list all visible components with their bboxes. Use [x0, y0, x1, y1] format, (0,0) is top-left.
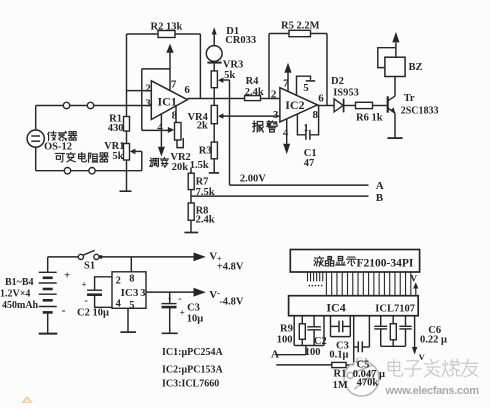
svg-text:2SC1833: 2SC1833: [401, 106, 439, 117]
svg-text:5: 5: [303, 82, 309, 94]
svg-text:D2: D2: [331, 76, 344, 87]
svg-text:+: +: [82, 279, 87, 289]
svg-text:0.22 μ: 0.22 μ: [420, 335, 447, 346]
svg-text:IC2: IC2: [285, 98, 304, 112]
svg-text:7.5k: 7.5k: [196, 187, 215, 198]
svg-text:1M: 1M: [333, 380, 348, 391]
svg-text:1: 1: [303, 122, 309, 134]
svg-text:47: 47: [304, 158, 315, 169]
svg-text:www.elecfans.com: www.elecfans.com: [385, 385, 480, 397]
svg-text:IC1:μPC254A: IC1:μPC254A: [162, 347, 223, 358]
svg-text:F2100-34PI: F2100-34PI: [357, 257, 414, 269]
svg-text:R1: R1: [334, 369, 347, 380]
svg-text:3: 3: [145, 98, 151, 110]
svg-text:IC3:ICL7660: IC3:ICL7660: [162, 379, 219, 390]
svg-text:8: 8: [313, 109, 319, 121]
svg-text:IS953: IS953: [333, 87, 359, 98]
svg-text:6: 6: [318, 92, 324, 104]
svg-text:+: +: [64, 269, 70, 281]
svg-text:8: 8: [172, 109, 178, 121]
svg-text:+: +: [180, 308, 185, 318]
svg-text:ICL7107: ICL7107: [375, 303, 415, 314]
svg-text:A: A: [271, 349, 279, 361]
svg-text:4: 4: [116, 299, 122, 310]
svg-text:3: 3: [140, 288, 145, 299]
svg-text:IC1: IC1: [158, 95, 177, 109]
svg-text:V: V: [419, 352, 426, 362]
svg-text:IC2:μPC153A: IC2:μPC153A: [162, 365, 223, 376]
svg-text:C2: C2: [314, 336, 327, 347]
svg-text:-: -: [178, 293, 181, 304]
svg-text:7: 7: [171, 79, 177, 91]
svg-text:2: 2: [271, 89, 277, 101]
svg-text:100: 100: [305, 347, 321, 358]
svg-text:C3: C3: [187, 303, 200, 314]
svg-text:V: V: [410, 275, 417, 285]
svg-text:-: -: [85, 295, 88, 306]
svg-text:3: 3: [273, 109, 279, 121]
svg-text:R3: R3: [199, 145, 212, 156]
svg-text:5k: 5k: [112, 151, 123, 162]
svg-text:R6 1k: R6 1k: [356, 113, 383, 124]
svg-text:4: 4: [283, 127, 289, 139]
svg-text:2.4k: 2.4k: [196, 215, 215, 226]
svg-text:1.2V×4: 1.2V×4: [0, 289, 30, 300]
svg-text:IC3: IC3: [121, 287, 139, 299]
svg-text:BZ: BZ: [409, 62, 423, 73]
svg-text:6: 6: [184, 84, 190, 96]
svg-text:R9: R9: [280, 324, 293, 335]
svg-text:B1~B4: B1~B4: [5, 277, 34, 288]
svg-text:A: A: [376, 180, 384, 192]
svg-text:-: -: [62, 303, 66, 317]
svg-text:10μ: 10μ: [187, 314, 204, 325]
svg-text:2: 2: [116, 276, 121, 287]
svg-text:Tr: Tr: [404, 93, 415, 104]
svg-text:2.4k: 2.4k: [245, 87, 264, 98]
svg-text:7: 7: [283, 77, 289, 89]
svg-text:R5 2.2M: R5 2.2M: [281, 21, 320, 32]
svg-text:470k: 470k: [357, 377, 379, 388]
svg-text:C2 10μ: C2 10μ: [77, 308, 109, 319]
svg-text:20k: 20k: [172, 162, 189, 173]
svg-text:-4.8V: -4.8V: [219, 296, 244, 307]
svg-text:+4.8V: +4.8V: [217, 262, 244, 273]
svg-text:100: 100: [277, 334, 293, 345]
svg-text:5: 5: [129, 300, 134, 311]
svg-text:2k: 2k: [197, 121, 208, 132]
svg-text:2.00V: 2.00V: [240, 174, 266, 185]
svg-text:2: 2: [145, 83, 151, 95]
svg-text:450mAh: 450mAh: [2, 300, 39, 311]
svg-text:8: 8: [129, 274, 134, 285]
svg-text:4: 4: [157, 121, 163, 133]
svg-text:R2 13k: R2 13k: [151, 22, 183, 33]
svg-text:OS-12: OS-12: [44, 142, 72, 153]
svg-text:R4: R4: [246, 76, 260, 87]
svg-text:430: 430: [108, 123, 124, 134]
svg-text:IC4: IC4: [326, 301, 345, 315]
svg-text:0.1μ: 0.1μ: [329, 350, 348, 361]
svg-text:1.5k: 1.5k: [190, 160, 209, 171]
svg-text:R7: R7: [196, 176, 209, 187]
svg-text:B: B: [376, 192, 384, 204]
svg-text:S1: S1: [84, 261, 95, 272]
svg-text:CR033: CR033: [225, 35, 256, 46]
svg-text:5k: 5k: [224, 70, 235, 81]
